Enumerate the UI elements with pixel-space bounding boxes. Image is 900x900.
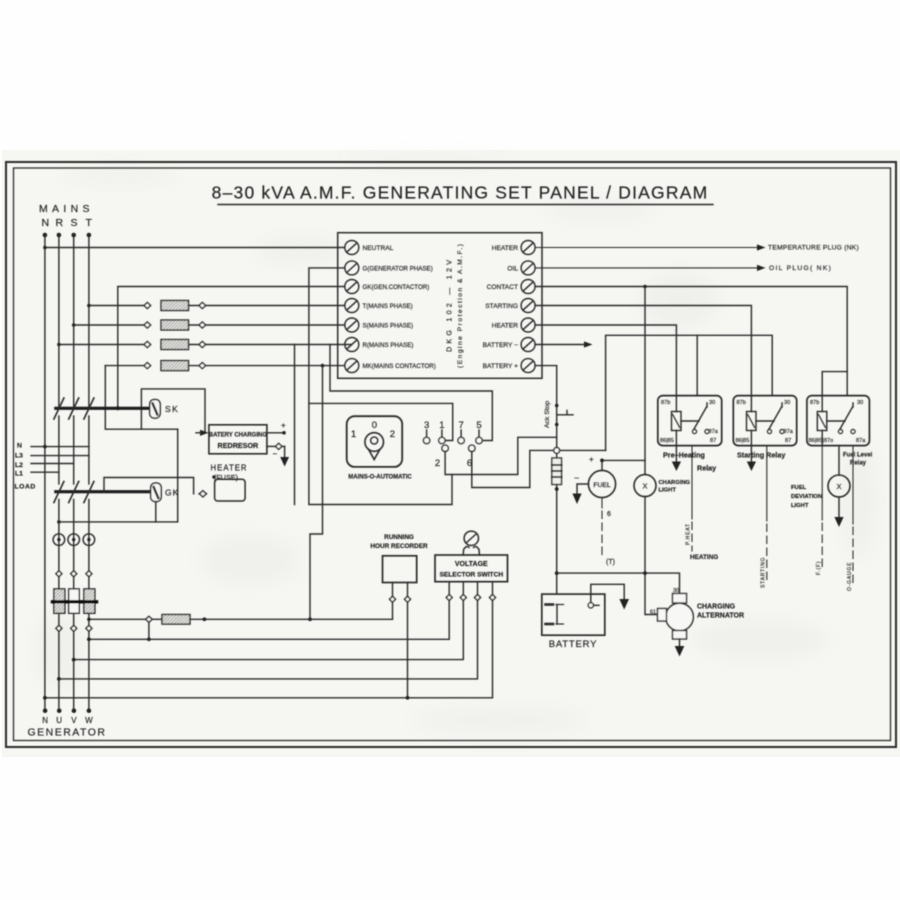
svg-text:W: W <box>85 716 93 725</box>
wire GK coil riser <box>156 429 178 522</box>
diamond W upper <box>86 571 92 577</box>
current transformer CT2 <box>68 534 80 546</box>
diamond V lower <box>71 625 77 631</box>
label temperature plug <box>768 245 859 252</box>
terminal S(MAINS PHASE) <box>345 318 359 332</box>
svg-text:GK(GEN.CONTACTOR): GK(GEN.CONTACTOR) <box>363 284 430 291</box>
U1 centre label <box>445 244 465 368</box>
svg-text:RUNNING: RUNNING <box>384 534 414 541</box>
wire K1 heating lead <box>691 446 693 551</box>
heater fuse label <box>211 464 248 483</box>
svg-text:L3: L3 <box>15 453 23 460</box>
metering fuse F6 <box>89 618 146 620</box>
svg-text:ALTERNATOR: ALTERNATOR <box>697 613 744 620</box>
wire H1 bottom to alternator 61 <box>645 497 658 615</box>
wire relay1 30 drop <box>696 335 698 395</box>
G1 terminal 30 box <box>673 594 687 604</box>
wire K3 gauge lead <box>852 446 854 583</box>
wire fuel minus <box>577 484 588 494</box>
svg-text:61: 61 <box>650 610 656 616</box>
voltage selector switch S2 <box>435 555 508 582</box>
GK contact blade W <box>84 482 94 503</box>
wire battery minus lead <box>535 344 584 346</box>
label LOAD group <box>15 443 36 491</box>
battery cell marks <box>546 603 554 606</box>
arrow temperature plug <box>757 244 766 250</box>
SK contact blade S <box>69 398 79 419</box>
svg-text:86|85|87o: 86|85|87o <box>809 438 834 444</box>
svg-text:GENERATOR: GENERATOR <box>27 727 106 739</box>
current transformer CT1 <box>53 534 65 546</box>
svg-text:87a: 87a <box>856 438 866 444</box>
svg-text:30: 30 <box>857 400 863 406</box>
ground arrow redresor <box>284 446 286 457</box>
wire H1 top <box>644 287 646 475</box>
ground arrow alternator <box>679 639 681 646</box>
svg-text:S(MAINS PHASE): S(MAINS PHASE) <box>363 323 414 330</box>
wire load L1 <box>31 471 59 473</box>
svg-text:LIGHT: LIGHT <box>659 488 677 494</box>
rotary switch S1 body <box>347 416 403 467</box>
GK contact blade V <box>69 482 79 503</box>
svg-text:U: U <box>56 716 62 725</box>
wire T vertical <box>88 235 90 408</box>
svg-text:87a: 87a <box>709 429 719 435</box>
svg-text:87b: 87b <box>810 400 819 406</box>
wire N vertical <box>44 235 46 711</box>
diamond U lower <box>56 625 62 631</box>
terminal GK(GEN.CONTACTOR) <box>345 280 359 294</box>
charging alternator G1 <box>666 603 694 631</box>
wire heater fuse lead <box>104 478 207 494</box>
wire V vertical <box>73 500 75 711</box>
wire S vertical <box>73 235 75 408</box>
svg-text:OIL: OIL <box>507 265 518 272</box>
svg-text:SK: SK <box>165 404 179 414</box>
fuse F2 connector diamonds <box>144 322 151 328</box>
svg-text:Fuel Level: Fuel Level <box>843 453 873 459</box>
svg-text:Ack Stop: Ack Stop <box>544 401 551 428</box>
svg-text:BATERY CHARGING: BATERY CHARGING <box>209 432 268 438</box>
terminal CONTACT <box>521 280 535 294</box>
node R fuse tap <box>57 343 61 347</box>
generator fuse FW <box>84 589 95 613</box>
wire R aux drop <box>294 345 296 505</box>
battery B1 <box>542 594 605 635</box>
svg-text:R: R <box>56 217 64 229</box>
mains terminal R <box>57 233 62 238</box>
diamond P1 left <box>390 596 396 602</box>
label pre-heating relay <box>663 451 716 473</box>
running hour recorder P1 <box>383 556 417 583</box>
label plus <box>281 421 286 430</box>
svg-text:2: 2 <box>390 429 395 440</box>
svg-text:87b: 87b <box>661 400 670 406</box>
label 61 <box>650 610 656 616</box>
svg-text:BATTERY −: BATTERY − <box>483 342 519 349</box>
terminal R(MAINS PHASE) <box>345 338 359 352</box>
inner border frame <box>14 168 891 741</box>
selector contact 3 <box>424 420 429 431</box>
fuse F1 connector diamonds <box>144 303 151 309</box>
wire MK row <box>105 365 147 367</box>
svg-text:+: + <box>281 421 286 430</box>
svg-text:−: − <box>273 450 278 459</box>
wire contact lead <box>535 287 847 396</box>
svg-text:T: T <box>86 217 93 229</box>
svg-text:+: + <box>589 455 594 464</box>
charge warning light H1 <box>634 475 656 497</box>
svg-text:OIL PLUG( NK): OIL PLUG( NK) <box>769 265 832 272</box>
label GK <box>165 488 179 498</box>
wire fuel level relay 30 <box>846 372 848 396</box>
battery aux terminal <box>588 603 593 608</box>
svg-text:NEUTRAL: NEUTRAL <box>363 245 394 252</box>
label fuel plus <box>589 455 594 464</box>
wire contact2 link <box>445 437 557 474</box>
svg-text:F.(F): F.(F) <box>816 561 822 575</box>
push button ack stop <box>555 404 559 408</box>
arrow K1 out <box>675 446 677 462</box>
bus N to selector <box>45 582 493 698</box>
svg-text:G(GENERATOR PHASE): G(GENERATOR PHASE) <box>363 265 433 272</box>
fuse link bar <box>53 600 97 603</box>
terminal NEUTRAL <box>345 241 359 255</box>
contactor GK coil <box>151 483 162 502</box>
wire R vertical <box>58 235 60 408</box>
label battery <box>549 639 598 650</box>
arrow H2 ground <box>834 517 843 527</box>
label MAINS-O-AUTOMATIC <box>348 475 412 481</box>
node charge light tap <box>643 285 647 289</box>
label heating wire <box>686 523 692 545</box>
label fuel minus <box>574 473 579 483</box>
terminal HEATER(plug) <box>521 241 535 255</box>
svg-text:30: 30 <box>709 400 715 406</box>
generator fuse FU <box>54 589 65 613</box>
node F6 output <box>203 617 207 621</box>
svg-text:T(MAINS PHASE): T(MAINS PHASE) <box>363 303 413 310</box>
svg-text:87: 87 <box>710 438 716 444</box>
outer border frame <box>6 162 896 747</box>
wire GK coil bottom <box>59 502 156 522</box>
SK contact blade T <box>84 398 94 419</box>
selector contact 7 <box>458 420 463 431</box>
arrow into redresor <box>200 430 209 436</box>
wire starting lead <box>535 306 751 396</box>
mains terminal T <box>87 233 92 238</box>
fuse F4 connector diamonds <box>144 363 151 369</box>
svg-text:X: X <box>642 482 647 491</box>
wire battery to alternator 30 <box>557 573 680 593</box>
svg-text:BATTERY +: BATTERY + <box>483 363 519 370</box>
bus U to selector <box>59 582 478 679</box>
label gauge wire <box>847 562 853 591</box>
svg-text:8–30 kVA A.M.F. GENERATING SET: 8–30 kVA A.M.F. GENERATING SET PANEL / D… <box>212 183 709 203</box>
selector contact 1 <box>439 420 444 431</box>
svg-text:S: S <box>71 217 78 229</box>
wire fuel plus <box>602 460 645 470</box>
wire load L3 <box>31 455 89 457</box>
terminal STARTING <box>521 299 535 313</box>
wire K2 starting lead <box>766 446 768 580</box>
mains terminal N <box>43 233 48 238</box>
svg-text:L1: L1 <box>15 471 23 478</box>
terminal BATTERY - <box>521 338 535 352</box>
svg-text:N: N <box>42 716 48 725</box>
label heating <box>690 554 718 561</box>
svg-text:CHARGING: CHARGING <box>659 480 691 486</box>
wire T(mains phase) row <box>89 305 147 307</box>
label minus <box>273 450 278 459</box>
svg-text:L2: L2 <box>15 462 23 469</box>
svg-text:MAINS-O-AUTOMATIC: MAINS-O-AUTOMATIC <box>348 475 412 481</box>
relay K1 pre-heating <box>658 396 722 446</box>
svg-text:87a: 87a <box>784 429 794 435</box>
wire W vertical <box>88 500 90 711</box>
title <box>212 183 709 203</box>
svg-text:86|85: 86|85 <box>660 438 674 444</box>
fuse F4 <box>161 361 189 371</box>
MAINS label <box>39 203 94 229</box>
label fuel deviation light <box>791 485 822 509</box>
selector contact 6 <box>469 445 475 451</box>
terminal MK(MAINS CONTACTOR) <box>345 359 359 373</box>
svg-text:2: 2 <box>435 458 440 469</box>
node GK on SK bar <box>116 406 120 410</box>
svg-text:Starting Relay: Starting Relay <box>737 451 785 460</box>
wire S(mains phase) row <box>74 324 147 326</box>
svg-text:(FUSE): (FUSE) <box>214 473 238 482</box>
fuse F3 <box>161 340 189 350</box>
ground arrow fuel <box>572 494 581 505</box>
diamond P1 right <box>405 596 411 602</box>
svg-text:0: 0 <box>372 420 377 431</box>
svg-text:SELECTOR SWITCH: SELECTOR SWITCH <box>439 572 503 579</box>
svg-text:DEVIATION: DEVIATION <box>791 494 822 500</box>
wire R(mains phase) row <box>59 344 147 346</box>
node GK neutral <box>57 520 61 524</box>
wire battery plus lead <box>535 366 557 448</box>
label 30 <box>673 588 679 594</box>
svg-text:86|85: 86|85 <box>736 438 750 444</box>
wire oil plug lead <box>535 267 757 269</box>
node on bus W <box>147 637 151 641</box>
svg-text:FUEL: FUEL <box>791 485 807 491</box>
svg-text:HEATER: HEATER <box>492 323 518 330</box>
wire S between contactors <box>73 416 75 484</box>
svg-text:REDRESOR: REDRESOR <box>218 441 260 450</box>
selector contact 5 <box>476 420 481 431</box>
heater fuse box <box>215 479 246 501</box>
terminal G(GENERATOR PHASE) <box>345 261 359 275</box>
svg-text:O-GAUGE: O-GAUGE <box>847 562 853 591</box>
wire battery ground <box>591 584 624 602</box>
svg-text:VOLTAGE: VOLTAGE <box>455 561 488 568</box>
wire U vertical <box>58 500 60 711</box>
svg-text:N: N <box>17 443 22 450</box>
node MK branch <box>321 364 325 368</box>
GK contact blade U <box>54 482 64 503</box>
svg-text:STARTING: STARTING <box>761 557 767 588</box>
svg-text:Relay: Relay <box>697 464 716 473</box>
selector lead diamonds <box>446 595 452 601</box>
arrow oil plug <box>757 265 766 271</box>
wire P1 left lead <box>392 583 394 620</box>
relay K3 fuel level <box>807 396 870 446</box>
diamond U upper <box>56 571 62 577</box>
wire MK branch down to lower bus <box>310 366 323 620</box>
node heater fuse top tap <box>212 475 216 479</box>
svg-text:CHARGING: CHARGING <box>697 604 736 611</box>
wire SK coil feed <box>141 389 205 433</box>
DKG 102 control unit U1 <box>338 233 542 379</box>
label fuel level relay <box>843 453 873 467</box>
generator fuse FV <box>69 589 80 613</box>
generator terminal U <box>57 708 62 713</box>
svg-text:P.HEAT: P.HEAT <box>686 523 692 545</box>
svg-text:HOUR RECORDER: HOUR RECORDER <box>370 543 428 550</box>
label starting relay <box>737 451 785 460</box>
svg-text:MAINS: MAINS <box>39 203 94 215</box>
wire neutral bus <box>45 247 345 249</box>
diamond heater fuse <box>200 491 207 497</box>
node T fuse tap <box>87 304 91 308</box>
label generator <box>27 716 106 739</box>
rotary switch knob <box>365 433 384 452</box>
label starting wire <box>761 557 767 588</box>
terminal OIL <box>521 261 535 275</box>
wire load N <box>31 446 89 448</box>
label ack stop <box>544 401 551 428</box>
node fuse bottom <box>555 487 559 491</box>
arrow K2 out <box>750 446 752 462</box>
svg-text:LIGHT: LIGHT <box>791 503 809 509</box>
fuse F2 <box>161 320 189 330</box>
wire K3 sender lead F <box>821 446 823 567</box>
voltmeter V1 <box>464 531 478 545</box>
label 6 <box>607 511 611 518</box>
svg-text:(T): (T) <box>606 559 615 566</box>
label charging alternator <box>697 604 744 620</box>
node MK on metering line <box>308 617 312 621</box>
svg-text:30: 30 <box>784 400 790 406</box>
svg-text:MK(MAINS CONTACTOR): MK(MAINS CONTACTOR) <box>363 363 436 370</box>
wire G(generator phase) row <box>309 268 452 505</box>
svg-text:N: N <box>42 217 50 229</box>
label running hour recorder <box>370 534 428 550</box>
svg-text:1: 1 <box>351 429 356 440</box>
fuse F3 connector diamonds <box>144 342 151 348</box>
svg-text:6: 6 <box>607 511 611 518</box>
svg-text:87b: 87b <box>737 400 746 406</box>
bus V to selector <box>74 582 464 660</box>
generator terminal W <box>87 708 92 713</box>
wire P1 right lead <box>407 583 409 698</box>
G1 bottom box <box>673 631 687 640</box>
svg-text:LOAD: LOAD <box>15 484 36 491</box>
wire R phase to selector contact 5 <box>330 345 492 441</box>
label SK <box>165 404 179 414</box>
contactor SK coil <box>150 400 161 419</box>
svg-text:X: X <box>836 482 841 491</box>
svg-text:30: 30 <box>673 588 679 594</box>
svg-text:87: 87 <box>785 438 791 444</box>
wire redresor plus output <box>267 432 283 434</box>
wire F6 diamond drop <box>148 622 150 639</box>
wire heater plug lead <box>535 247 757 249</box>
svg-text:FUEL: FUEL <box>593 482 611 489</box>
generator terminal V <box>72 708 77 713</box>
wire node to relay bus <box>560 449 606 451</box>
wire fuel sender dashed <box>601 498 603 555</box>
node S fuse tap <box>72 323 76 327</box>
svg-text:R(MAINS PHASE): R(MAINS PHASE) <box>363 342 414 349</box>
svg-text:TEMPERATURE PLUG (NK): TEMPERATURE PLUG (NK) <box>768 245 859 252</box>
svg-text:Pre–Heating: Pre–Heating <box>663 451 705 460</box>
svg-text:HEATING: HEATING <box>690 554 718 561</box>
terminal BATTERY + <box>521 359 535 373</box>
label (F) wire <box>816 561 822 575</box>
generator terminal N <box>43 708 48 713</box>
current transformer CT3 <box>83 534 95 546</box>
contactor SK bar <box>56 407 150 410</box>
title underline <box>218 204 713 206</box>
wire redresor minus output <box>267 445 276 447</box>
fuel deviation light H2 <box>838 446 840 475</box>
svg-text:BATTERY: BATTERY <box>549 639 598 650</box>
wire load L2 <box>31 463 74 465</box>
node ack junction <box>554 448 560 454</box>
contactor GK bar <box>56 490 151 493</box>
wire ack to relay bus <box>606 335 773 450</box>
diamond redresor minus <box>276 443 282 449</box>
svg-text:HEATER: HEATER <box>492 245 518 252</box>
bus W to selector <box>89 582 449 640</box>
label (T) <box>606 559 615 566</box>
node H1 battery line crossing <box>643 571 647 575</box>
label charging light <box>659 480 691 494</box>
ground arrow battery <box>619 599 629 610</box>
wire heater relay lead <box>535 325 676 396</box>
svg-text:CONTACT: CONTACT <box>487 284 518 291</box>
fuse battery F5 <box>556 453 558 458</box>
mains terminal S <box>71 233 76 238</box>
SK contact blade R <box>54 398 64 419</box>
svg-text:HEATER: HEATER <box>211 464 248 473</box>
terminal T(MAINS PHASE) <box>345 299 359 313</box>
wire R between contactors <box>58 416 60 484</box>
svg-text:−: − <box>574 473 579 483</box>
node P1 on bus N <box>406 696 410 700</box>
svg-text:STARTING: STARTING <box>485 303 518 310</box>
wire switch feed <box>309 403 453 440</box>
arrow battery minus <box>584 341 593 347</box>
terminal HEATER(relay) <box>521 318 535 332</box>
fuse F1 <box>161 301 189 311</box>
wire T between contactors <box>88 416 90 484</box>
wire MK left drop <box>105 366 177 430</box>
battery charging redresor PS1 <box>209 425 267 454</box>
U1 right pin labels <box>483 245 519 370</box>
U1 left pin labels <box>363 245 436 370</box>
svg-text:V: V <box>71 716 77 725</box>
selector contact 2 <box>442 445 448 451</box>
relay K2 starting <box>733 396 796 446</box>
node battery feed <box>555 571 559 575</box>
wire contact6 link <box>472 450 554 487</box>
G1 terminal 61 box <box>658 609 667 622</box>
